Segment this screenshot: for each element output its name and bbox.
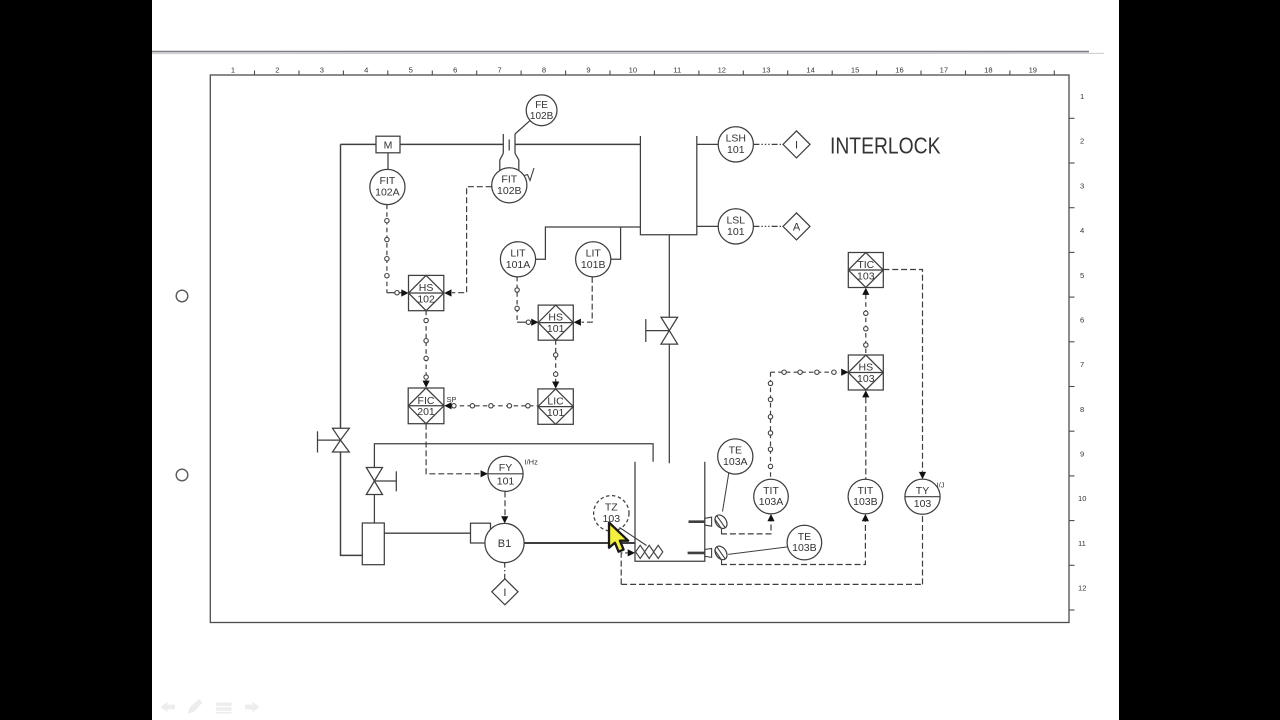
arrow into TIT 103B bottom	[862, 514, 869, 521]
controller FIC 201	[408, 388, 444, 424]
top ruler ticks	[255, 71, 1055, 76]
svg-text:201: 201	[417, 406, 435, 418]
instrument FE 102B	[526, 95, 557, 126]
pipe valve V2 to tank	[374, 444, 653, 468]
svg-text:FY: FY	[499, 462, 512, 474]
instrument TE 103B	[787, 525, 822, 560]
signal HS 101 to LIC 101	[555, 340, 557, 382]
drawing sheet border	[210, 75, 1069, 623]
svg-text:13: 13	[762, 66, 770, 75]
svg-text:SP: SP	[447, 395, 457, 404]
controller LIC 101	[538, 389, 573, 424]
svg-text:101: 101	[727, 226, 745, 238]
venturi flow element	[500, 120, 531, 170]
svg-text:I/J: I/J	[937, 481, 945, 490]
instrument LSH 101	[718, 127, 753, 162]
svg-text:101: 101	[547, 323, 565, 335]
svg-text:102B: 102B	[497, 185, 522, 197]
arrow into HS 102 right	[444, 289, 451, 296]
right ruler ticks	[1069, 118, 1075, 610]
svg-text:9: 9	[1080, 450, 1084, 459]
svg-text:14: 14	[806, 66, 814, 75]
svg-text:2: 2	[275, 66, 279, 75]
svg-text:3: 3	[1080, 181, 1084, 190]
svg-text:103: 103	[914, 498, 932, 510]
svg-text:TE: TE	[798, 531, 811, 543]
svg-text:101: 101	[727, 144, 745, 156]
svg-text:102A: 102A	[375, 187, 400, 199]
arrow into TIT 103A bottom	[767, 514, 774, 521]
svg-text:103B: 103B	[853, 496, 878, 508]
svg-text:TE: TE	[729, 445, 742, 457]
arrow into TY 103 top	[919, 472, 926, 479]
valve V3 below vessel	[646, 317, 678, 344]
wire M to FIT 102A	[387, 153, 389, 170]
square root mark at FIT 102B	[525, 168, 535, 181]
level tap to LSH 101	[697, 143, 719, 145]
svg-text:TIC: TIC	[857, 259, 874, 271]
svg-text:B1: B1	[498, 538, 511, 550]
svg-text:HS: HS	[419, 282, 434, 294]
link LSH 101 to interlock diamond	[753, 143, 783, 145]
svg-text:4: 4	[364, 66, 368, 75]
svg-text:101: 101	[547, 407, 565, 419]
link LSL 101 to alarm diamond	[753, 225, 783, 227]
slide top separator line	[152, 51, 1089, 53]
signal LIT 101A to HS 101	[517, 277, 530, 322]
arrow into HS 103 left	[841, 369, 848, 376]
svg-text:10: 10	[629, 66, 637, 75]
svg-text:FIC: FIC	[418, 395, 435, 407]
svg-text:HS: HS	[859, 362, 874, 374]
svg-text:FIT: FIT	[501, 174, 517, 186]
level tap to LSL 101	[697, 225, 719, 227]
signal TE 103A to TIT 103A (dashed)	[721, 521, 771, 534]
feed block (heater)	[362, 523, 384, 565]
pipe valve V2 to block	[373, 495, 375, 524]
svg-text:9: 9	[586, 66, 590, 75]
svg-text:102B: 102B	[530, 111, 554, 122]
pipe venturi to vessel	[515, 143, 640, 145]
arrow into FIC 201 top	[423, 381, 430, 388]
svg-text:TIT: TIT	[858, 485, 874, 497]
svg-text:103A: 103A	[723, 456, 748, 468]
signal TIT 103B to HS 103 (dashed)	[865, 397, 867, 479]
svg-text:LIC: LIC	[547, 396, 564, 408]
svg-text:10: 10	[1078, 494, 1086, 503]
left feed riser pipe lower	[341, 452, 363, 555]
svg-text:LIT: LIT	[586, 248, 602, 260]
svg-text:101B: 101B	[581, 259, 606, 271]
svg-text:FIT: FIT	[380, 175, 396, 187]
svg-text:12: 12	[718, 66, 726, 75]
selector HS 102	[409, 275, 444, 310]
pipe block to blower B1	[384, 532, 470, 534]
arrow into FIC 201 right (SP)	[444, 402, 451, 409]
instrument TE 103A	[718, 439, 753, 474]
svg-text:101A: 101A	[506, 259, 531, 271]
level tap lines from vessel to LIT bubbles	[536, 227, 641, 259]
thermowell TE 103B device	[688, 544, 730, 565]
svg-text:103A: 103A	[759, 496, 784, 508]
arrow into HS 101 left	[531, 319, 538, 326]
right ruler row numbers	[1078, 92, 1086, 593]
svg-text:7: 7	[497, 66, 501, 75]
svg-text:4: 4	[1080, 226, 1084, 235]
lead line TE 103A to thermowell	[723, 473, 729, 512]
svg-text:102: 102	[417, 293, 435, 305]
instrument TIT 103B	[848, 479, 883, 514]
motor M box	[376, 136, 400, 153]
pipe valve V3 into tank	[668, 344, 670, 463]
svg-text:103: 103	[857, 373, 875, 385]
link HS 103 to TIC 103 (circles)	[865, 295, 867, 355]
pipe from left riser to motor M	[341, 143, 377, 145]
svg-text:FE: FE	[535, 100, 548, 111]
alarm diamond A at LSL	[783, 213, 810, 240]
signal LIT 101B to HS 101 (dashed)	[582, 277, 593, 322]
interlock link B1 to diamond I (dash-dot)	[504, 563, 506, 579]
setpoint link LIC 101 to FIC 201	[452, 405, 538, 407]
arrow into HS 103 bottom	[862, 390, 869, 397]
right video black bar	[1119, 0, 1280, 720]
svg-text:19: 19	[1029, 66, 1037, 75]
hole punch circle upper	[176, 290, 188, 302]
riser to TY 103	[922, 514, 924, 584]
signal FIC 201 to FY 101 (dashed)	[426, 424, 479, 474]
svg-text:TIT: TIT	[763, 485, 779, 497]
signal TE 103B to TIT 103B (dashed)	[721, 521, 865, 564]
interlock diamond I at B1	[492, 579, 518, 605]
instrument FIT 102A	[370, 169, 405, 204]
svg-text:7: 7	[1080, 360, 1084, 369]
arrow into B1 top	[501, 516, 508, 523]
instrument LIT 101B	[576, 242, 611, 277]
svg-text:I: I	[503, 587, 506, 599]
svg-text:18: 18	[984, 66, 992, 75]
pipe B1 outlet to tank coil	[524, 542, 635, 544]
hole punch circle lower	[176, 469, 188, 481]
svg-text:17: 17	[940, 66, 948, 75]
arrow into HS 101 right	[574, 319, 581, 326]
svg-text:HS: HS	[548, 312, 563, 324]
svg-text:TZ: TZ	[605, 502, 618, 514]
signal TY 103 to heating coil (dashed with arrow)	[621, 553, 627, 585]
instrument LSL 101	[718, 209, 753, 244]
svg-text:103: 103	[857, 270, 875, 282]
measuring vessel (open top)	[640, 136, 696, 235]
svg-text:6: 6	[453, 66, 457, 75]
svg-text:101: 101	[497, 475, 515, 487]
lead line TZ 103 to coil	[620, 528, 647, 546]
svg-text:1: 1	[231, 66, 235, 75]
arrow into FY 101 left	[481, 470, 488, 477]
left video black bar	[0, 0, 152, 720]
svg-text:11: 11	[1078, 539, 1086, 548]
svg-text:15: 15	[851, 66, 859, 75]
top ruler column numbers	[231, 66, 1037, 75]
lead line TE 103B to thermowell	[728, 547, 787, 555]
selector HS 103	[848, 355, 883, 390]
bottom dashed signal rail	[621, 583, 922, 585]
mouse cursor	[609, 523, 628, 552]
pipe M to venturi	[400, 143, 503, 145]
svg-text:LSL: LSL	[726, 215, 745, 227]
instrument FIT 102B	[492, 168, 527, 203]
link TIT 103A to HS 103 (circles)	[771, 372, 841, 479]
instrument TIT 103A	[754, 479, 789, 514]
arrow into LIC 101 top	[552, 382, 559, 389]
signal FY 101 to blower B1 (dashed)	[504, 491, 506, 516]
thermowell TE 103A device	[689, 513, 730, 534]
svg-text:103B: 103B	[792, 542, 817, 554]
svg-text:103: 103	[603, 513, 621, 525]
svg-text:16: 16	[895, 66, 903, 75]
svg-text:I/Hz: I/Hz	[525, 458, 539, 467]
instrument LIT 101A	[500, 242, 535, 277]
svg-text:5: 5	[1080, 271, 1084, 280]
lead line to FE bubble	[515, 120, 530, 134]
arrow into TIC 103 bottom	[862, 288, 869, 295]
converter FY 101	[488, 456, 538, 491]
svg-text:LSH: LSH	[726, 133, 746, 145]
instrument TZ 103 (dashed bubble)	[594, 496, 629, 531]
svg-text:2: 2	[1080, 137, 1084, 146]
left feed riser pipe upper	[340, 144, 342, 428]
signal FIT 102B to HS 102 (dashed)	[452, 187, 492, 293]
svg-text:8: 8	[1080, 405, 1084, 414]
svg-text:12: 12	[1078, 584, 1086, 593]
svg-text:6: 6	[1080, 316, 1084, 325]
svg-text:I: I	[795, 140, 798, 152]
pipe vessel bottom to valve V3	[668, 235, 670, 317]
heating coil in tank	[636, 545, 663, 558]
valve V2 on tank feed	[366, 444, 653, 523]
svg-text:TY: TY	[916, 485, 929, 497]
signal HS 102 to FIC 201 (link with circles)	[425, 311, 427, 381]
mixing tank	[635, 462, 705, 562]
svg-text:A: A	[793, 222, 801, 234]
svg-text:8: 8	[542, 66, 546, 75]
blower B1	[471, 523, 525, 562]
converter TY 103	[905, 479, 945, 514]
svg-text:5: 5	[409, 66, 413, 75]
svg-text:11: 11	[673, 66, 681, 75]
valve V1 on left riser	[318, 428, 350, 452]
arrow into coil	[628, 549, 635, 556]
svg-text:1: 1	[1080, 92, 1084, 101]
interlock diamond I at LSH	[783, 131, 810, 158]
svg-text:LIT: LIT	[510, 248, 526, 260]
svg-text:M: M	[384, 139, 393, 151]
arrow into HS 102 left	[401, 289, 408, 296]
selector HS 101	[538, 305, 573, 340]
svg-text:3: 3	[320, 66, 324, 75]
signal FIT 102A to HS 102 (link with circles)	[387, 205, 402, 293]
presenter toolbar icons	[161, 699, 260, 714]
svg-text:INTERLOCK: INTERLOCK	[830, 133, 941, 159]
signal TIC 103 to TY 103 (dashed)	[883, 270, 922, 472]
controller TIC 103	[848, 253, 883, 288]
